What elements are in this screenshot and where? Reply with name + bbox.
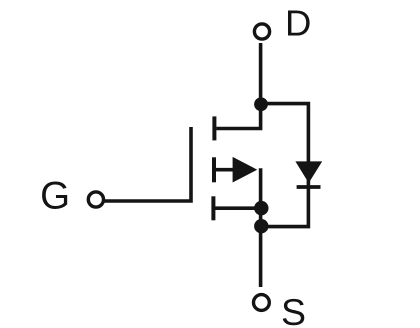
wire: source connection from bottom channel bar to source node	[215, 206, 261, 210]
wire: drain lead from terminal D down to drain node and left to top channel bar	[216, 43, 260, 129]
wire: body/arrow lead vertical down to source node and S terminal	[259, 168, 263, 287]
terminal circle S	[254, 295, 270, 311]
transistor Q1 top channel bar (drain segment)	[212, 116, 216, 140]
wire: drain node right, down right branch, and back left to source node	[261, 104, 309, 227]
terminal circle D	[254, 24, 269, 39]
transistor Q1 bottom channel bar (source segment)	[211, 196, 215, 220]
node: source junction dot (upper)	[254, 201, 268, 215]
node: drain junction dot	[254, 97, 268, 111]
transistor Q1 middle channel bar (body segment)	[212, 157, 216, 182]
node: source junction dot (lower)	[254, 219, 268, 233]
diode D1 body diode anode triangle	[295, 161, 322, 183]
wire: middle body connection from middle channel bar to arrow	[216, 168, 244, 172]
transistor Q1 body arrow (pointing into channel, N-channel)	[233, 157, 258, 183]
diode D1 cathode bar	[297, 185, 321, 189]
wire: gate lead from terminal G to gate electrode	[105, 127, 191, 201]
svg-text:G: G	[40, 175, 70, 218]
terminal circle G	[88, 192, 103, 207]
svg-text:S: S	[281, 291, 306, 328]
svg-text:D: D	[285, 3, 311, 44]
